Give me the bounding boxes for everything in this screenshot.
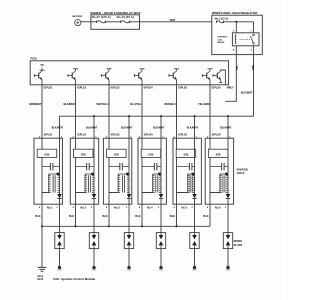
coil No.1 secondary wire to spark plug <box>59 204 61 232</box>
junction node <box>41 225 43 227</box>
transformer core of coil No.3 <box>123 175 125 192</box>
coil No.2 bottom labels <box>73 205 94 209</box>
svg-text:No.5: No.5 <box>182 205 188 209</box>
spark plug 1 <box>55 233 64 249</box>
svg-text:BATTERY: BATTERY <box>72 15 83 18</box>
ICM (igniter) of coil No.6 <box>208 149 228 157</box>
ignition coil No.2 case <box>70 138 98 204</box>
svg-text:No.3: No.3 <box>114 205 120 209</box>
svg-text:BLK/RED: BLK/RED <box>63 102 75 106</box>
coil No.3 bottom labels <box>106 205 128 209</box>
diode D2 (secondary) <box>92 194 96 204</box>
primary winding of coil No.6 <box>220 175 222 192</box>
ICM (igniter) of coil No.1 <box>37 149 57 157</box>
svg-text:BLK/WHT: BLK/WHT <box>241 92 253 95</box>
under-hood fuse/relay box <box>90 11 141 29</box>
wire to relay coil pin 2 <box>235 22 237 33</box>
coil No.5 ground wire BLK <box>170 204 177 226</box>
ignition coil No.4 case <box>138 138 166 204</box>
spark plug 4 <box>156 233 165 249</box>
wire IGPLS1 from PCM to coil, BRN/WHT <box>29 85 42 138</box>
ignition coil No.3 case <box>103 138 131 204</box>
coil No.6 secondary wire to spark plug <box>227 204 229 232</box>
capacitor (noise condenser) of coil No.3 <box>109 163 129 170</box>
svg-text:No.44 (40 A): No.44 (40 A) <box>117 15 134 19</box>
transformer core of coil No.6 <box>223 175 225 192</box>
ignition coil No.6 case <box>205 138 233 204</box>
ground G101 <box>37 267 46 281</box>
svg-text:No.6: No.6 <box>215 205 221 209</box>
coil No.2 secondary wire to spark plug <box>93 204 95 232</box>
svg-text:YEL/GRN: YEL/GRN <box>198 102 210 106</box>
wire to ground G101 <box>41 226 43 267</box>
svg-text:No.4: No.4 <box>147 205 153 209</box>
plug 4 wire to ground <box>159 249 164 270</box>
svg-text:BLK/WHT: BLK/WHT <box>121 126 133 129</box>
coil No.6 bottom labels <box>207 205 227 209</box>
fuse No.2 (15A) <box>215 18 229 24</box>
svg-text:IGPLS1: IGPLS1 <box>44 134 53 137</box>
svg-text:BLK: BLK <box>69 214 74 218</box>
svg-text:No.47 (120 A): No.47 (120 A) <box>92 15 111 19</box>
svg-text:G102: G102 <box>37 279 43 281</box>
svg-text:BLK: BLK <box>203 214 208 218</box>
transistor Q6 (IGPLS6 driver) <box>202 69 212 85</box>
svg-text:IGPLS5: IGPLS5 <box>178 86 188 89</box>
svg-text:IGPLS6: IGPLS6 <box>212 134 221 137</box>
junction node <box>108 225 110 227</box>
svg-text:PCM: PCM <box>31 57 38 61</box>
svg-text:IGPLS2: IGPLS2 <box>77 86 87 89</box>
wire: coil No.3 B+ terminal down to diode <box>128 138 130 194</box>
coil No.5 secondary wire to spark plug <box>194 204 196 232</box>
svg-text:BLK/WHT: BLK/WHT <box>86 126 98 129</box>
spark plug 2 <box>89 233 98 249</box>
fuse No.47 (120A) <box>92 15 111 23</box>
wire: coil No.4 signal terminal to ICM and primary <box>142 138 153 204</box>
wire IGPLS2 from PCM to coil, BLK/RED <box>63 85 75 138</box>
coil No.3 ground wire BLK <box>102 204 109 226</box>
svg-text:ICM: ICM <box>45 152 50 156</box>
secondary winding of coil No.6 <box>220 173 228 193</box>
ICM (igniter) of coil No.5 <box>176 149 196 157</box>
svg-text:IGPLS3: IGPLS3 <box>111 134 120 137</box>
coil No.4 bottom labels <box>139 205 160 209</box>
node: relay coil feed junction <box>235 21 237 23</box>
diode D5 (secondary) <box>192 194 196 204</box>
ignition coil No.5 case <box>173 138 201 204</box>
junction node <box>74 225 76 227</box>
svg-text:BLK: BLK <box>135 214 140 218</box>
branch wire to coil 4 B+ terminal, BLK/WHT <box>153 116 165 138</box>
battery B1 <box>72 15 83 26</box>
ignition coil No.1 case <box>34 138 62 204</box>
svg-text:BRN/WHT: BRN/WHT <box>29 102 42 106</box>
svg-text:IGNITION: IGNITION <box>218 36 228 38</box>
svg-text:ICM: ICM <box>149 152 154 156</box>
svg-text:No.1: No.1 <box>47 205 53 209</box>
plug 6 wire to ground <box>226 249 231 270</box>
svg-text:WHT: WHT <box>251 65 254 71</box>
fuse No.44 (40A) <box>117 15 134 23</box>
secondary winding of coil No.1 <box>49 173 60 193</box>
coil No.1 bottom labels <box>39 205 59 209</box>
capacitor (noise condenser) of coil No.5 <box>177 163 195 170</box>
node bus/branch junctions <box>93 115 95 117</box>
svg-text:BLK/WHT: BLK/WHT <box>187 126 199 129</box>
svg-text:ICM: ICM <box>81 152 86 156</box>
secondary winding of coil No.5 <box>188 173 195 193</box>
svg-text:BLK: BLK <box>102 214 107 218</box>
svg-text:YEL: YEL <box>235 66 238 71</box>
wire: coil No.5 signal terminal to ICM and primary <box>177 138 188 204</box>
spark plug 5 <box>190 233 199 249</box>
wire between fuses <box>106 21 121 23</box>
transistor Q2 (IGPLS2 driver) <box>68 69 78 85</box>
plug 5 wire to ground <box>192 249 197 270</box>
svg-text:PLUGS: PLUGS <box>234 244 243 247</box>
svg-text:IGPLS4: IGPLS4 <box>144 86 154 89</box>
spark plug 3 <box>124 233 133 249</box>
coil No.2 ground wire BLK <box>69 204 76 226</box>
svg-text:COILS: COILS <box>237 172 245 175</box>
wire battery to under-hood fuse/relay box <box>81 21 91 23</box>
transformer core of coil No.5 <box>190 175 192 192</box>
primary winding of coil No.3 <box>118 175 120 192</box>
svg-text:BLK: BLK <box>35 214 40 218</box>
svg-text:IGPLS3: IGPLS3 <box>111 86 121 89</box>
secondary winding of coil No.4 <box>153 173 161 193</box>
secondary winding of coil No.3 <box>118 173 129 193</box>
wire: coil No.3 signal terminal to ICM and primary <box>109 138 118 204</box>
svg-text:RED/BLU: RED/BLU <box>164 102 176 106</box>
transistor Q1 (IGPLS1 driver) <box>34 64 44 84</box>
coil No.4 ground wire BLK <box>135 204 142 226</box>
primary winding of coil No.1 <box>49 175 51 192</box>
coil No.5 pin 2 (signal) and pin 1 (B+) labels <box>174 134 198 139</box>
svg-text:ICM : Ignition Control Module: ICM : Ignition Control Module <box>53 277 95 281</box>
svg-text:IGPLS2: IGPLS2 <box>77 134 86 137</box>
coil No.4 pin 2 (signal) and pin 1 (B+) labels <box>139 134 164 139</box>
svg-text:WHT: WHT <box>170 19 176 22</box>
svg-text:DRIVER’S UNDER - DASH FUSE/REL: DRIVER’S UNDER - DASH FUSE/RELAY BOX <box>212 12 258 15</box>
junction node <box>141 225 143 227</box>
branch wire to coil 3 B+ terminal, BLK/WHT <box>121 116 133 138</box>
capacitor (noise condenser) of coil No.2 <box>76 163 95 170</box>
diode D4 (secondary) <box>159 194 163 204</box>
svg-text:UNDER - HOOD FUSE/RELAY BOX: UNDER - HOOD FUSE/RELAY BOX <box>90 11 141 15</box>
ICM (igniter) of coil No.3 <box>107 149 127 157</box>
coil No.5 bottom labels <box>174 205 194 209</box>
wire to relay switch pin 1 <box>253 22 255 33</box>
svg-text:BLK: BLK <box>170 214 175 218</box>
capacitor (noise condenser) of coil No.1 <box>42 163 60 170</box>
svg-text:WHT/BLU: WHT/BLU <box>97 102 109 106</box>
wire: coil No.2 B+ terminal down to diode <box>93 138 95 194</box>
plug 2 wire to ground <box>92 249 97 270</box>
svg-text:IGPLS1: IGPLS1 <box>44 86 54 89</box>
wire IGPLS3 from PCM to coil, WHT/BLU <box>97 85 109 138</box>
transformer core of coil No.4 <box>156 175 158 192</box>
coil No.1 ground wire BLK <box>35 204 42 226</box>
wire: coil No.1 signal terminal to ICM and primary <box>42 138 49 204</box>
wire: coil No.2 signal terminal to ICM and primary <box>76 138 86 204</box>
wire: coil No.5 B+ terminal down to diode <box>194 138 196 194</box>
diode D6 (secondary) <box>226 194 230 204</box>
wire: coil No.1 B+ terminal down to diode <box>59 138 61 194</box>
ICM (igniter) of coil No.2 <box>74 149 94 157</box>
ignition coil relay K1 <box>218 33 260 46</box>
diode D3 (secondary) <box>127 194 131 204</box>
branch wire to coil 2 B+ terminal, BLK/WHT <box>86 116 98 138</box>
svg-text:MRLY: MRLY <box>227 86 234 89</box>
spark plugs label <box>234 240 243 247</box>
svg-text:No.2: No.2 <box>81 205 87 209</box>
capacitor (noise condenser) of coil No.4 <box>142 163 161 170</box>
coil No.4 secondary wire to spark plug <box>160 204 162 232</box>
PCM box U1 <box>30 57 228 85</box>
wire IGPLS5 from PCM to coil, RED/BLU <box>164 85 176 138</box>
transistor Q3 (IGPLS3 driver) <box>101 69 111 85</box>
wire fuse to relay pins <box>224 21 254 23</box>
svg-text:ICM: ICM <box>184 152 189 156</box>
svg-text:IGB: IGB <box>40 64 44 66</box>
capacitor (noise condenser) of coil No.6 <box>210 163 228 170</box>
transformer core of coil No.1 <box>53 175 55 192</box>
wire IGPLS4 from PCM to coil, BLU/YEL <box>130 85 142 138</box>
coil No.6 ground wire BLK <box>203 204 210 226</box>
plug 1 wire to ground <box>57 249 62 270</box>
coil No.6 pin 2 (signal) and pin 1 (B+) labels <box>207 134 231 139</box>
wire into fuse No.47 <box>91 21 97 23</box>
primary winding of coil No.5 <box>188 175 190 192</box>
svg-text:RELAY: RELAY <box>218 41 225 44</box>
svg-text:BLU/YEL: BLU/YEL <box>130 102 142 106</box>
transistor Q5 (IGPLS5 driver) <box>169 69 179 85</box>
svg-text:SPARK: SPARK <box>234 240 243 243</box>
wire: coil No.6 B+ terminal down to diode <box>227 138 229 194</box>
wire IGPLS6 from PCM to coil, YEL/GRN <box>198 85 210 138</box>
secondary winding of coil No.2 <box>85 173 94 193</box>
svg-text:G101: G101 <box>37 276 43 278</box>
svg-text:BLK/WHT: BLK/WHT <box>52 126 64 129</box>
wire fuse box to under-dash box, WHT <box>130 19 212 22</box>
primary winding of coil No.2 <box>85 175 87 192</box>
svg-text:ICM: ICM <box>114 152 119 156</box>
spark plug 6 <box>223 233 232 249</box>
coil No.2 pin 2 (signal) and pin 1 (B+) labels <box>73 134 98 139</box>
ICM (igniter) of coil No.4 <box>141 149 161 157</box>
transformer core of coil No.2 <box>89 175 91 192</box>
coil No.3 pin 2 (signal) and pin 1 (B+) labels <box>106 134 132 139</box>
wire: coil No.4 B+ terminal down to diode <box>160 138 162 194</box>
primary winding of coil No.4 <box>153 175 155 192</box>
svg-text:IGPLS4: IGPLS4 <box>144 134 153 137</box>
junction node <box>175 225 177 227</box>
driver's under-dash fuse/relay box <box>212 12 262 55</box>
svg-text:No.2 (15 A): No.2 (15 A) <box>215 18 229 21</box>
coil No.1 pin 2 (signal) and pin 1 (B+) labels <box>39 134 63 139</box>
coil No.3 secondary wire to spark plug <box>128 204 130 232</box>
transistor Q4 (IGPLS4 driver) <box>134 69 144 85</box>
wire: coil No.6 signal terminal to ICM and primary <box>210 138 220 204</box>
branch wire to coil 1 B+ terminal, BLK/WHT <box>52 116 64 138</box>
ground bus wire <box>42 225 210 227</box>
transistor Q7 (MRLY driver) <box>213 70 225 85</box>
svg-text:ICM: ICM <box>216 152 221 156</box>
branch wire to coil 6 B+ terminal, BLK/WHT <box>220 116 232 138</box>
diode D1 (secondary) <box>57 194 61 204</box>
branch wire to coil 5 B+ terminal, BLK/WHT <box>187 116 199 138</box>
svg-text:IGPLS5: IGPLS5 <box>178 134 187 137</box>
svg-text:BLK/WHT: BLK/WHT <box>220 126 232 129</box>
svg-text:COIL: COIL <box>218 39 224 41</box>
plug 3 wire to ground <box>127 249 132 270</box>
svg-text:BLK/WHT: BLK/WHT <box>153 126 165 129</box>
svg-text:IGPLS6: IGPLS6 <box>212 86 222 89</box>
